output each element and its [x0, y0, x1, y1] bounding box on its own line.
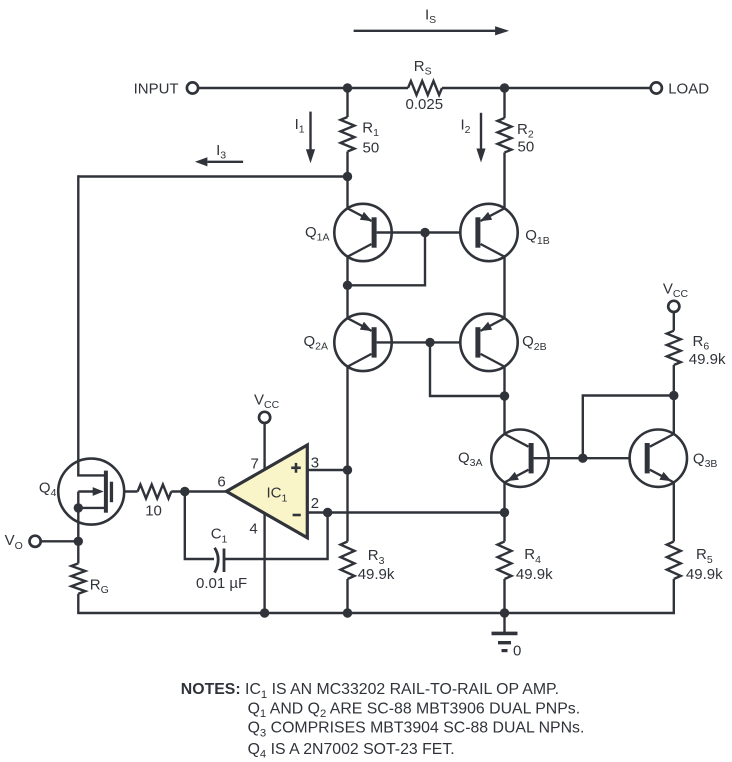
- svg-text:NOTES: IC1 IS AN MC33202 RAIL-: NOTES: IC1 IS AN MC33202 RAIL-TO-RAIL OP…: [181, 681, 559, 701]
- Q4 source stub: [78, 507, 106, 509]
- pin 7 wire: [263, 423, 265, 470]
- node Q3 bases: [578, 454, 587, 463]
- wire Q2A collector down: [346, 367, 348, 470]
- wire Q1B collector to Q2B: [503, 257, 505, 319]
- node VO-RG: [74, 537, 83, 546]
- node load-R2: [500, 83, 509, 92]
- base lead Q2B: [430, 341, 475, 343]
- wire VO to node: [41, 540, 79, 542]
- node Q2 bases: [425, 338, 434, 347]
- Q4 drain lead: [78, 460, 106, 476]
- capacitor C1 curved plate: [215, 548, 219, 573]
- transistor Q1B: [460, 204, 517, 261]
- svg-text:49.9k: 49.9k: [689, 351, 726, 368]
- pin 2 wire: [307, 511, 504, 513]
- resistor R3: [341, 542, 355, 580]
- node pin4-rail: [260, 608, 269, 617]
- transistor Q3B: [630, 430, 687, 487]
- transistor Q4 body: [58, 459, 124, 525]
- wire R4 to rail: [503, 579, 505, 613]
- wire Q2 base to Q2B collector: [430, 342, 505, 396]
- node Q4 source: [74, 503, 83, 512]
- wire node to R2: [503, 88, 505, 118]
- svg-text:50: 50: [518, 139, 535, 156]
- node R4-ground: [500, 608, 509, 617]
- ground stub: [503, 613, 505, 633]
- svg-text:LOAD: LOAD: [668, 80, 709, 97]
- op-amp minus sign: [293, 514, 301, 517]
- op-amp IC1 body: [226, 445, 307, 538]
- terminal LOAD: [651, 82, 662, 93]
- node pin2-C1: [323, 508, 332, 517]
- wire Q3A emitter down: [503, 482, 505, 512]
- current arrow I3: [208, 161, 244, 163]
- node input-R1: [343, 83, 352, 92]
- wire Q1 base to Q1A collector: [348, 233, 426, 286]
- pin 6 wire: [171, 490, 226, 492]
- node R6 bottom: [669, 391, 678, 400]
- wire node A to left rail: [78, 175, 347, 177]
- node R3-rail: [343, 608, 352, 617]
- svg-text:49.9k: 49.9k: [516, 566, 553, 583]
- svg-text:Q1 AND Q2 ARE SC-88 MBT3906 DU: Q1 AND Q2 ARE SC-88 MBT3906 DUAL PNPs.: [248, 700, 581, 720]
- resistor R1: [341, 117, 355, 152]
- resistor RS: [408, 81, 442, 95]
- wire R2 to Q1B emitter: [503, 153, 505, 209]
- node Q3A emitter: [500, 508, 509, 517]
- svg-text:7: 7: [251, 456, 259, 473]
- wire Q2B to Q3A collector: [503, 396, 505, 434]
- svg-text:Q3 COMPRISES MBT3904 SC-88 DUA: Q3 COMPRISES MBT3904 SC-88 DUAL NPNs.: [248, 720, 585, 740]
- wire Q3B emitter to R5: [673, 482, 675, 541]
- base lead Q2A: [377, 341, 430, 343]
- wire node to RG: [77, 541, 79, 563]
- pin 3 wire: [307, 469, 347, 471]
- svg-text:0: 0: [513, 642, 521, 659]
- terminal INPUT: [187, 82, 198, 93]
- wire RG to rail: [77, 594, 79, 614]
- resistor R5: [667, 542, 681, 580]
- svg-text:10: 10: [145, 502, 162, 519]
- Q4 gate bar: [110, 482, 113, 503]
- resistor RG: [71, 563, 85, 593]
- wire R3 to rail: [346, 579, 348, 613]
- svg-text:Q4 IS A 2N7002 SOT-23 FET.: Q4 IS A 2N7002 SOT-23 FET.: [248, 741, 455, 761]
- wire node to Q3B collector: [673, 396, 675, 435]
- node pin6-C1: [180, 487, 189, 496]
- wire Q2B collector: [503, 367, 505, 396]
- terminal VO: [29, 536, 40, 547]
- resistor R4: [498, 542, 512, 580]
- resistor 10: [138, 485, 172, 499]
- base lead Q1B: [425, 231, 475, 233]
- node A: [343, 172, 352, 181]
- wire C1 right riser: [224, 513, 328, 560]
- bottom rail: [78, 612, 675, 614]
- node pin3-R3: [343, 465, 352, 474]
- wire RS to load node: [442, 87, 505, 89]
- base lead Q3B: [583, 457, 645, 459]
- svg-text:49.9k: 49.9k: [686, 566, 723, 583]
- wire pin3 node to R3: [346, 470, 348, 542]
- ground symbol: [492, 632, 518, 636]
- wire Q3A emitter to R4: [503, 513, 505, 542]
- node Q1A collector: [343, 281, 352, 290]
- svg-text:6: 6: [217, 474, 225, 491]
- wire R5 to rail corner: [673, 579, 675, 614]
- svg-text:2: 2: [311, 495, 319, 512]
- Q4 channel bar: [104, 471, 108, 513]
- node Q1 bases: [420, 228, 429, 237]
- svg-text:49.9k: 49.9k: [358, 566, 395, 583]
- current arrow IS: [354, 30, 496, 32]
- base lead Q3A: [534, 457, 583, 459]
- wire R6 to node: [673, 365, 675, 396]
- terminal VCC right: [668, 301, 679, 312]
- svg-text:INPUT: INPUT: [134, 80, 179, 97]
- wire Q1A collector: [346, 257, 348, 286]
- wire node to R1: [346, 88, 348, 117]
- wire to LOAD: [505, 87, 651, 89]
- wire Q3 bases to R6 node: [583, 396, 674, 459]
- svg-text:3: 3: [311, 454, 319, 471]
- resistor R6: [667, 331, 681, 365]
- Q4 source lead: [77, 492, 79, 542]
- svg-text:0.025: 0.025: [406, 96, 444, 113]
- Q4 body arrow: [78, 490, 96, 492]
- svg-text:0.01 µF: 0.01 µF: [196, 575, 247, 592]
- op-amp plus sign: [291, 466, 301, 469]
- wire Q1A collector to Q2A: [346, 285, 348, 318]
- wire R1 to node A: [346, 152, 348, 177]
- left rail wire: [77, 175, 79, 459]
- svg-text:4: 4: [249, 520, 257, 537]
- current arrow I1: [309, 112, 311, 150]
- pin 4 wire: [263, 514, 265, 613]
- transistor Q2B: [460, 314, 517, 371]
- terminal VCC opamp: [259, 412, 270, 423]
- base lead Q1A: [377, 231, 425, 233]
- current arrow I2: [480, 113, 482, 149]
- wire input to RS: [198, 87, 408, 89]
- transistor Q1A: [334, 204, 391, 261]
- node Q2B collector: [500, 391, 509, 400]
- svg-text:50: 50: [363, 139, 380, 156]
- wire VCC to R6: [673, 312, 675, 331]
- wire C1 left riser: [185, 492, 214, 560]
- transistor Q3A: [491, 430, 548, 487]
- transistor Q2A: [334, 314, 391, 371]
- wire R1 bottom to Q1A: [346, 177, 348, 209]
- resistor R2: [498, 118, 512, 153]
- capacitor C1 straight plate: [223, 549, 226, 573]
- wire R10 to Q4 gate: [113, 490, 138, 492]
